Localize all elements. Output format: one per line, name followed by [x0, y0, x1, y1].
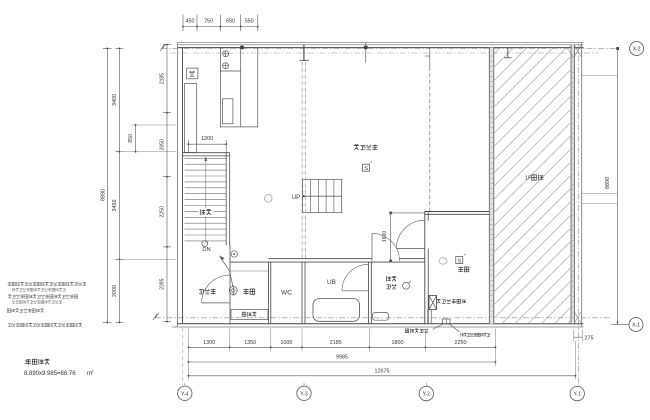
wall: bottom exterior wall: [178, 323, 584, 325]
washroom door swing arc: [372, 233, 400, 261]
leader to black cock label: [433, 324, 444, 330]
genkan left boundary line: [229, 245, 231, 324]
gas burner 1: [223, 51, 229, 57]
oil cock box on wall: [443, 319, 451, 324]
stair centre line with arrow: [205, 160, 207, 244]
stair top landing wall: [183, 152, 230, 154]
UB right wall: [368, 262, 370, 324]
corner brace top-right: [574, 46, 581, 57]
svg-text:Y-2: Y-2: [423, 392, 431, 398]
grid line Y-1 vertical (dash-dot): [577, 44, 579, 386]
svg-text:UP: UP: [292, 195, 300, 201]
svg-text:2250: 2250: [455, 340, 467, 346]
svg-text:2250: 2250: [159, 206, 165, 217]
svg-text:1300: 1300: [203, 340, 215, 346]
svg-text:8890: 8890: [605, 177, 611, 189]
stair treads: [185, 157, 227, 159]
genkan ceiling light symbol: [229, 287, 237, 295]
svg-text:275: 275: [585, 336, 594, 342]
shoe cabinet (下駄箱): [231, 310, 268, 320]
washroom label (洗面/脱衣): [386, 276, 390, 281]
leader to oil pipe label: [450, 324, 460, 332]
svg-text:X-1: X-1: [632, 323, 640, 329]
svg-text:S: S: [458, 258, 462, 264]
top dimension chain 450/750/650/550: [183, 26, 258, 28]
UB door leaf: [342, 290, 369, 292]
grid bubble X-1: [629, 318, 643, 332]
stair right wall: [225, 153, 227, 245]
internal dim 1600: [390, 213, 392, 261]
small dim 275 bottom right: [573, 330, 575, 341]
left dim column 3400/3450/2000: [118, 48, 120, 322]
switch symbol S in living: [363, 164, 370, 171]
stair label (階段): [199, 208, 214, 217]
svg-text:750: 750: [204, 18, 213, 24]
svg-text:2: 2: [92, 370, 94, 374]
svg-text:8890: 8890: [100, 189, 106, 201]
small 850 window dim: [135, 125, 137, 152]
DN guide arrow in hall: [222, 259, 233, 286]
oil pipe label (灯油配管(OU)より): [461, 333, 464, 337]
grid bubble Y-2: [419, 386, 433, 400]
light symbol with pull in hall: [231, 251, 237, 257]
wall: right exterior wall with window ticks: [571, 45, 575, 322]
switch symbol S in bedroom: [456, 257, 463, 264]
grid bubble Y-4: [178, 386, 192, 400]
bottom dim chain row 1: [189, 346, 496, 348]
Y-2 line above bedroom (dashed): [429, 67, 431, 212]
hot water boiler box: [429, 296, 437, 310]
genkan label (玄関): [243, 289, 248, 295]
svg-text:2000: 2000: [112, 285, 118, 297]
svg-text:Y-4: Y-4: [181, 391, 189, 397]
svg-text:850: 850: [128, 134, 134, 143]
svg-text:1200: 1200: [201, 136, 213, 142]
wall: left exterior wall: [177, 43, 179, 327]
black cock label (黒コック付): [405, 329, 408, 333]
svg-text:1F: 1F: [525, 176, 532, 182]
wash basin: [403, 282, 410, 289]
hall door swing arc: [202, 275, 230, 303]
svg-text:9985: 9985: [336, 355, 348, 361]
gas burner 2: [223, 63, 229, 69]
bedroom left wall: [424, 212, 426, 324]
break mark at left end of X-2: [160, 44, 166, 51]
boiler pipes: [427, 310, 429, 324]
washroom door leaf: [371, 233, 373, 261]
post mark at grid Y-2 top wall: [429, 48, 431, 67]
svg-text:650: 650: [226, 18, 235, 24]
svg-text:1000: 1000: [280, 340, 292, 346]
note block 1 line 1: [8, 282, 12, 286]
svg-text:DN: DN: [202, 247, 210, 253]
UB door swing arc: [342, 264, 369, 291]
note block 1 line 2: [13, 288, 16, 291]
bedroom door swing arc: [396, 220, 424, 248]
boiler label (給湯ボイラー): [437, 299, 441, 303]
ceiling light in hall/dining: [265, 195, 273, 203]
svg-text:S: S: [364, 166, 368, 172]
ceiling light in bedroom: [439, 258, 447, 264]
grid line X-2 (dash-dot): [161, 47, 618, 49]
svg-text:12675: 12675: [375, 369, 390, 375]
grid bubble Y-1: [570, 386, 584, 400]
connector lines to wall: [119, 151, 176, 153]
svg-text:X-2: X-2: [633, 47, 641, 53]
svg-text:Y-3: Y-3: [300, 391, 308, 397]
svg-text:Y-1: Y-1: [574, 392, 582, 398]
DN circle: [202, 241, 208, 247]
bottom dim row 3 (12675): [189, 375, 576, 377]
kitchen island counter: [220, 48, 257, 127]
note block 4: [8, 324, 11, 327]
svg-text:2185: 2185: [330, 340, 342, 346]
1200 dimension over stairs: [188, 143, 226, 145]
Y-3 partition above (dashed pair): [301, 62, 303, 259]
svg-text:2050: 2050: [159, 139, 165, 150]
grid bubble Y-3: [297, 386, 311, 400]
bedroom door leaf: [396, 248, 424, 250]
hall door leaf: [202, 302, 230, 304]
post mark right part of top wall: [507, 48, 509, 58]
svg-text:2395: 2395: [159, 278, 165, 289]
UP arrow: [306, 195, 342, 197]
grid bubble X-2: [630, 42, 644, 56]
note block 2 line 2: [12, 300, 15, 303]
svg-text:8.890x9.985=88.76: 8.890x9.985=88.76: [24, 371, 76, 377]
post mark mid top wall: [365, 43, 367, 63]
grid line X-1 (dash-dot): [155, 317, 611, 319]
post mark at x=242 on top wall: [240, 46, 244, 50]
post at grid Y-3 on top wall: [303, 45, 305, 61]
WC walls: [268, 262, 270, 324]
left edge dashed extension to Y-4: [182, 328, 184, 385]
bedroom label (寝室): [458, 267, 463, 272]
kitchen counter along left wall: [185, 84, 197, 153]
bottom dim row 2 (9985): [189, 361, 496, 363]
break mark at left end of X-1: [153, 313, 159, 320]
loft ladder (UP): [303, 179, 342, 212]
bedroom top wall: [425, 211, 490, 213]
svg-text:WC: WC: [281, 290, 292, 297]
svg-text:550: 550: [245, 18, 254, 24]
window tick leaders on right wall: [582, 75, 618, 77]
corner brace bottom-right: [574, 312, 581, 323]
wall between living and water rooms: [230, 261, 425, 263]
hall label (ホール): [199, 290, 203, 295]
svg-text:2: 2: [25, 360, 28, 366]
svg-text:3450: 3450: [112, 200, 118, 212]
washing machine pan: [373, 313, 389, 321]
svg-text:1350: 1350: [244, 340, 256, 346]
svg-text:1600: 1600: [382, 231, 388, 242]
right dim 8890: [617, 48, 619, 324]
svg-text:2185: 2185: [159, 73, 165, 84]
svg-text:1800: 1800: [392, 340, 404, 346]
1F outline below top wall (dash-dot): [170, 52, 599, 54]
svg-text:UB: UB: [327, 279, 336, 286]
note block 2 line 1: [8, 295, 12, 299]
genkan step line: [230, 270, 269, 272]
svg-text:450: 450: [186, 18, 195, 24]
left dim column 8890: [106, 48, 108, 322]
note block 3: [7, 309, 10, 313]
living room label (リビング): [354, 145, 359, 150]
wall: top exterior wall: [178, 42, 584, 44]
bath tub: [313, 299, 360, 322]
kitchen sink: [222, 99, 233, 124]
wall between living/bedroom and 1F roof: [489, 48, 494, 324]
svg-text:3400: 3400: [112, 94, 118, 106]
left inner dim column 2185/2050/2250/2395: [166, 45, 168, 322]
refrigerator box (冷): [187, 68, 198, 79]
